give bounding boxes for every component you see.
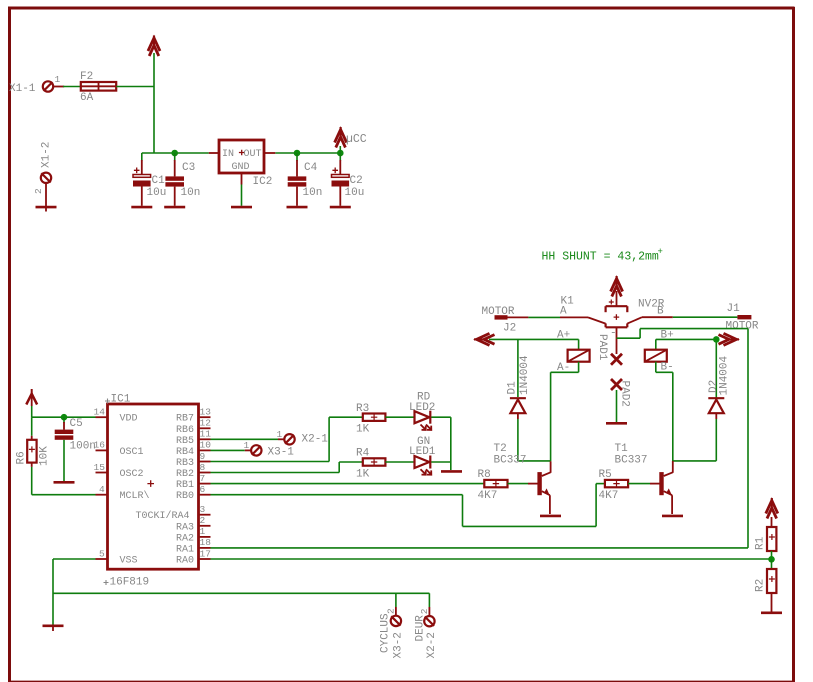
svg-text:RB7: RB7	[176, 414, 194, 425]
wire DEUR drop	[428, 593, 430, 615]
pin RB5 11	[176, 429, 211, 447]
resistor R1	[755, 527, 777, 551]
svg-text:C5: C5	[70, 418, 83, 430]
junction node VCC	[337, 150, 344, 157]
svg-text:2: 2	[200, 515, 206, 526]
wire R4 to LED1	[385, 461, 414, 463]
ground T1	[662, 515, 683, 518]
svg-text:13: 13	[200, 407, 212, 418]
pin RB2 8	[176, 462, 211, 480]
SECTION: rightdiv	[211, 498, 783, 613]
wire RB5 to X2-1	[211, 438, 285, 440]
wire B+	[656, 339, 717, 398]
svg-text:16: 16	[94, 440, 106, 451]
connector J1 MOTOR	[726, 303, 759, 333]
svg-text:X3-1: X3-1	[268, 447, 295, 459]
junction node B+	[713, 336, 720, 343]
svg-text:X1-2: X1-2	[41, 142, 53, 168]
svg-text:IN: IN	[222, 149, 234, 160]
svg-text:10n: 10n	[181, 187, 201, 199]
pin RA2 1	[176, 526, 211, 544]
pin MCLR 4	[96, 484, 150, 502]
svg-text:B: B	[657, 306, 664, 318]
wire A- to T2 collector	[551, 362, 579, 462]
offpage arrow A+	[474, 333, 495, 345]
wire R3 to LED2	[385, 416, 414, 418]
svg-text:4: 4	[99, 484, 105, 495]
ground C1	[131, 206, 152, 209]
screw terminal X2-2 DEUR	[415, 608, 438, 658]
wire RB0 to R5	[211, 484, 605, 527]
pin T0CKI/RA4 3	[136, 504, 211, 522]
svg-text:4K7: 4K7	[599, 490, 619, 502]
SECTION: drivers	[211, 443, 684, 526]
svg-text:R6: R6	[16, 451, 28, 464]
svg-text:J2: J2	[503, 323, 516, 335]
wire LED2 cathode	[431, 417, 451, 470]
svg-text:D1: D1	[507, 381, 519, 395]
svg-text:F2: F2	[80, 71, 93, 83]
svg-text:10K: 10K	[39, 446, 51, 466]
svg-text:RB4: RB4	[176, 447, 194, 458]
svg-text:3: 3	[200, 504, 206, 515]
wire pole to PAD1	[616, 327, 618, 354]
ground LEDs	[441, 470, 462, 473]
SECTION: bottom	[0, 0, 1, 1]
svg-text:OSC2: OSC2	[120, 469, 144, 480]
wire fuse to +24V rail	[116, 86, 154, 88]
ground R2	[761, 611, 782, 614]
svg-text:VDD: VDD	[120, 414, 138, 425]
svg-text:GND: GND	[232, 162, 250, 173]
svg-text:2: 2	[33, 188, 44, 194]
diode D2 1N4004	[708, 355, 731, 413]
wire CYCLUS drop	[395, 593, 397, 615]
SECTION: ledblock	[211, 392, 463, 481]
svg-text:1: 1	[277, 429, 283, 440]
svg-text:IC2: IC2	[253, 176, 273, 188]
diode D1 1N4004	[507, 355, 532, 413]
svg-text:RB6: RB6	[176, 425, 194, 436]
svg-text:+: +	[658, 247, 663, 257]
wire rail left	[142, 152, 209, 154]
wire VDD	[32, 406, 96, 436]
svg-text:A: A	[560, 306, 567, 318]
LED2 RD	[409, 392, 435, 430]
resistor R6 10K	[16, 436, 51, 467]
capacitor C3 10n	[165, 153, 200, 206]
wire PAD2 to ground	[616, 390, 618, 422]
svg-text:9: 9	[200, 451, 206, 462]
pad PAD2	[611, 379, 631, 407]
wire RB3 to R3	[211, 417, 363, 461]
junction node C3	[171, 150, 178, 157]
svg-text:RB5: RB5	[176, 436, 194, 447]
junction node VDD/C5	[61, 414, 68, 421]
svg-text:1N4004: 1N4004	[519, 355, 531, 395]
ground IC2	[231, 206, 252, 209]
SECTION: relay	[211, 247, 759, 548]
offpage arrow B+	[719, 333, 740, 345]
svg-text:17: 17	[200, 548, 211, 559]
svg-text:6: 6	[200, 484, 206, 495]
wire D2 to node	[715, 413, 717, 461]
svg-text:X1-1: X1-1	[9, 83, 36, 95]
pin RB6 12	[176, 418, 211, 436]
svg-text:T1: T1	[615, 443, 629, 455]
SECTION: mcu	[16, 389, 430, 631]
SECTION: power-top	[9, 36, 367, 212]
svg-text:5: 5	[99, 548, 105, 559]
svg-text:12: 12	[200, 418, 212, 429]
capacitor C4 10n	[288, 153, 323, 206]
svg-text:1: 1	[55, 74, 61, 85]
svg-text:IC1: IC1	[111, 394, 131, 406]
svg-text:R3: R3	[356, 403, 369, 415]
svg-text:2: 2	[419, 608, 430, 614]
svg-text:LED2: LED2	[409, 402, 435, 414]
svg-text:2: 2	[386, 608, 397, 614]
svg-text:MOTOR: MOTOR	[726, 321, 759, 333]
svg-text:6A: 6A	[80, 92, 94, 104]
wire R1 to node	[771, 551, 773, 560]
wire vertical supply	[153, 53, 155, 153]
svg-text:RA3: RA3	[176, 522, 194, 533]
SECTION: bottom	[380, 593, 438, 658]
ground X1-2	[36, 206, 57, 209]
pin OSC2 15	[94, 462, 144, 480]
svg-text:MCLR\: MCLR\	[120, 490, 150, 502]
junction node C4	[294, 150, 301, 157]
ground C4	[287, 206, 308, 209]
ground VSS	[43, 624, 64, 627]
wire rail right	[275, 152, 340, 154]
capacitor C1 10u	[133, 153, 166, 206]
note HH SHUNT	[542, 247, 663, 264]
svg-text:C2: C2	[350, 175, 363, 187]
screw terminal X2-1	[277, 429, 329, 446]
svg-text:CYCLUS: CYCLUS	[380, 613, 392, 653]
wire X1-2 to ground	[45, 183, 47, 211]
svg-text:16F819: 16F819	[110, 577, 150, 589]
wire RB1 to R8	[211, 483, 485, 485]
wire D1 to node	[518, 413, 551, 461]
LED1 GN	[409, 436, 436, 475]
svg-text:HH SHUNT = 43,2mm: HH SHUNT = 43,2mm	[542, 251, 659, 264]
supply arrow K1	[611, 276, 623, 297]
supply arrow top	[148, 36, 160, 57]
wire RA0 sense	[211, 558, 772, 560]
svg-text:1K: 1K	[356, 424, 370, 436]
svg-text:R4: R4	[356, 448, 370, 460]
microcontroller IC1 16F819	[104, 394, 199, 589]
pin RB4 10	[176, 440, 211, 458]
pin VSS 5	[96, 548, 138, 566]
svg-text:RB3: RB3	[176, 458, 194, 469]
svg-text:100n: 100n	[70, 441, 96, 453]
svg-text:1N4004: 1N4004	[719, 355, 731, 395]
wire R2 to ground	[771, 593, 773, 612]
svg-text:7: 7	[200, 473, 206, 484]
svg-text:C1: C1	[152, 175, 166, 187]
wire VSS to ground	[53, 559, 96, 631]
pin OSC1 16	[94, 440, 144, 458]
resistor R3 1K	[356, 403, 385, 436]
svg-text:VSS: VSS	[120, 556, 138, 567]
svg-text:4K7: 4K7	[478, 490, 498, 502]
svg-text:10u: 10u	[345, 187, 365, 199]
svg-text:18: 18	[200, 537, 212, 548]
svg-text:RA0: RA0	[176, 556, 194, 567]
ground C2	[330, 206, 351, 209]
svg-text:RB2: RB2	[176, 469, 194, 480]
pin RB7 13	[176, 407, 211, 425]
transistor T1 BC337	[615, 443, 673, 514]
wire RB4 to X3-1	[211, 449, 252, 451]
svg-text:OUT: OUT	[244, 149, 262, 160]
svg-text:DEUR: DEUR	[415, 615, 427, 642]
wire R6 to MCLR	[32, 467, 96, 495]
pin RA0 17	[176, 548, 211, 566]
wire LED1 cathode	[431, 461, 451, 463]
SECTION: rightdiv	[0, 0, 1, 1]
pin RA1 18	[176, 537, 211, 555]
svg-text:RB1: RB1	[176, 480, 194, 491]
relay coil K1-A	[568, 350, 590, 362]
wire R5 to T1 base	[628, 483, 659, 485]
svg-text:10u: 10u	[147, 187, 167, 199]
capacitor C5 100n	[55, 417, 96, 481]
svg-text:1: 1	[244, 440, 250, 451]
ground T2	[540, 515, 561, 518]
svg-text:X2-1: X2-1	[302, 434, 329, 446]
svg-text:R2: R2	[755, 579, 767, 592]
wire RB2 to R4	[211, 462, 363, 473]
pin RB1 7	[176, 473, 211, 491]
svg-text:LED1: LED1	[409, 446, 436, 458]
svg-text:J1: J1	[727, 303, 741, 315]
svg-text:15: 15	[94, 462, 106, 473]
svg-text:RB0: RB0	[176, 491, 194, 502]
svg-text:R1: R1	[755, 536, 767, 550]
svg-text:R8: R8	[478, 469, 491, 481]
pin RB0 6	[176, 484, 211, 502]
screw terminal X1-1	[9, 74, 64, 95]
wire J2 to contact A	[528, 316, 560, 318]
svg-text:PAD2: PAD2	[619, 381, 631, 407]
pin RA3 2	[176, 515, 211, 533]
ground C5	[54, 481, 75, 484]
screw terminal X1-2	[33, 142, 53, 194]
connector J2 MOTOR	[482, 306, 529, 335]
wire supply to contact	[616, 291, 618, 306]
svg-text:BC337: BC337	[615, 455, 648, 467]
svg-text:C3: C3	[182, 162, 195, 174]
wire GND rail bottom	[53, 592, 429, 594]
svg-text:T0CKI/RA4: T0CKI/RA4	[136, 510, 190, 522]
wire A+	[489, 339, 579, 397]
relay contact K1 NV2R	[560, 296, 673, 340]
wire IC2 gnd	[241, 185, 243, 206]
svg-text:10n: 10n	[303, 187, 323, 199]
svg-text:C4: C4	[304, 162, 318, 174]
IC2 voltage regulator	[209, 140, 275, 188]
svg-text:X3-2: X3-2	[392, 632, 404, 658]
svg-text:RA2: RA2	[176, 533, 194, 544]
wire sense PAD1 to RA1	[211, 329, 749, 548]
screw terminal X3-2 CYCLUS	[380, 608, 405, 659]
resistor R8 4K7	[478, 469, 508, 502]
supply arrow VCC	[335, 127, 347, 153]
svg-text:BC337: BC337	[494, 455, 527, 467]
svg-text:OSC1: OSC1	[120, 447, 144, 458]
svg-text:PAD1: PAD1	[596, 334, 608, 361]
relay coil K1-B	[645, 350, 667, 362]
pin VDD 14	[94, 407, 138, 425]
resistor R4 1K	[356, 448, 385, 481]
svg-text:X2-2: X2-2	[426, 632, 438, 658]
ground PAD2	[606, 422, 627, 425]
svg-text:RA1: RA1	[176, 544, 194, 555]
capacitor C2 10u	[332, 153, 365, 206]
wire B- to T1 collector	[656, 362, 717, 462]
fuse F2 6A	[80, 71, 116, 104]
svg-text:1: 1	[200, 526, 206, 537]
svg-text:R5: R5	[599, 469, 612, 481]
svg-text:µCC: µCC	[346, 133, 367, 146]
supply arrow VDD	[26, 389, 37, 406]
pad PAD1	[596, 334, 622, 365]
junction node R1/R2	[768, 556, 775, 563]
screw terminal X3-1	[244, 440, 295, 459]
wire B to J1	[673, 316, 738, 318]
svg-text:A+: A+	[557, 330, 570, 342]
svg-text:T2: T2	[494, 443, 507, 455]
wire X1-1 to fuse	[63, 86, 81, 88]
wire R8 to T2 base	[508, 483, 538, 485]
resistor R5 4K7	[599, 469, 629, 502]
svg-text:1K: 1K	[356, 469, 370, 481]
svg-text:8: 8	[200, 462, 206, 473]
resistor R2	[755, 560, 777, 594]
ground C3	[164, 206, 185, 209]
svg-text:14: 14	[94, 407, 106, 418]
svg-text:11: 11	[200, 429, 212, 440]
svg-text:10: 10	[200, 440, 212, 451]
pin RB3 9	[176, 451, 211, 469]
supply arrow R1	[766, 498, 778, 527]
transistor T2 BC337	[494, 443, 551, 514]
